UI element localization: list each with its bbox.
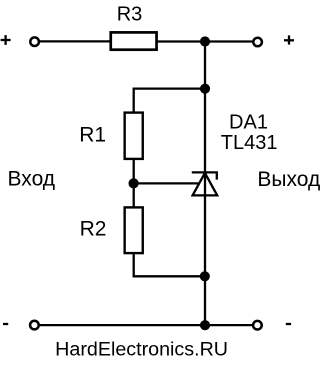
svg-text:Вход: Вход [8, 168, 56, 191]
terminal right bottom [253, 321, 262, 330]
node divider top [200, 84, 210, 94]
node reference [129, 178, 139, 188]
shunt regulator DA1 triangle [193, 173, 218, 196]
minus terminal label left bottom [3, 323, 8, 325]
svg-text:R2: R2 [80, 218, 107, 241]
wire branch to divider [134, 89, 205, 113]
shunt regulator DA1 cathode bar [192, 172, 217, 179]
wire reference to TL431 [134, 182, 200, 184]
plus terminal label right top [284, 35, 294, 44]
terminal right top [253, 38, 262, 47]
svg-text:TL431: TL431 [221, 132, 278, 154]
wire bottom rail [40, 324, 253, 326]
wire top rail left [40, 40, 111, 42]
node bottom of regulator [200, 271, 210, 281]
resistor R2 [125, 207, 143, 253]
minus terminal label right bottom [286, 323, 291, 325]
wire R2 to bottom rail [134, 253, 205, 276]
terminal left top [30, 37, 39, 46]
resistor R1 [125, 113, 143, 159]
svg-text:R3: R3 [117, 4, 143, 26]
wire main vertical [204, 41, 206, 325]
terminal left bottom [30, 321, 39, 330]
plus terminal label left top [1, 35, 11, 45]
node bottom rail [200, 320, 210, 330]
wire R1 to R2 [133, 159, 135, 208]
svg-text:HardElectronics.RU: HardElectronics.RU [55, 339, 228, 361]
svg-text:R1: R1 [79, 124, 106, 147]
svg-text:DA1: DA1 [229, 112, 268, 134]
node top rail [200, 36, 210, 46]
resistor R3 [111, 32, 157, 49]
wire top rail right [157, 40, 253, 42]
svg-text:Выход: Выход [257, 168, 320, 191]
